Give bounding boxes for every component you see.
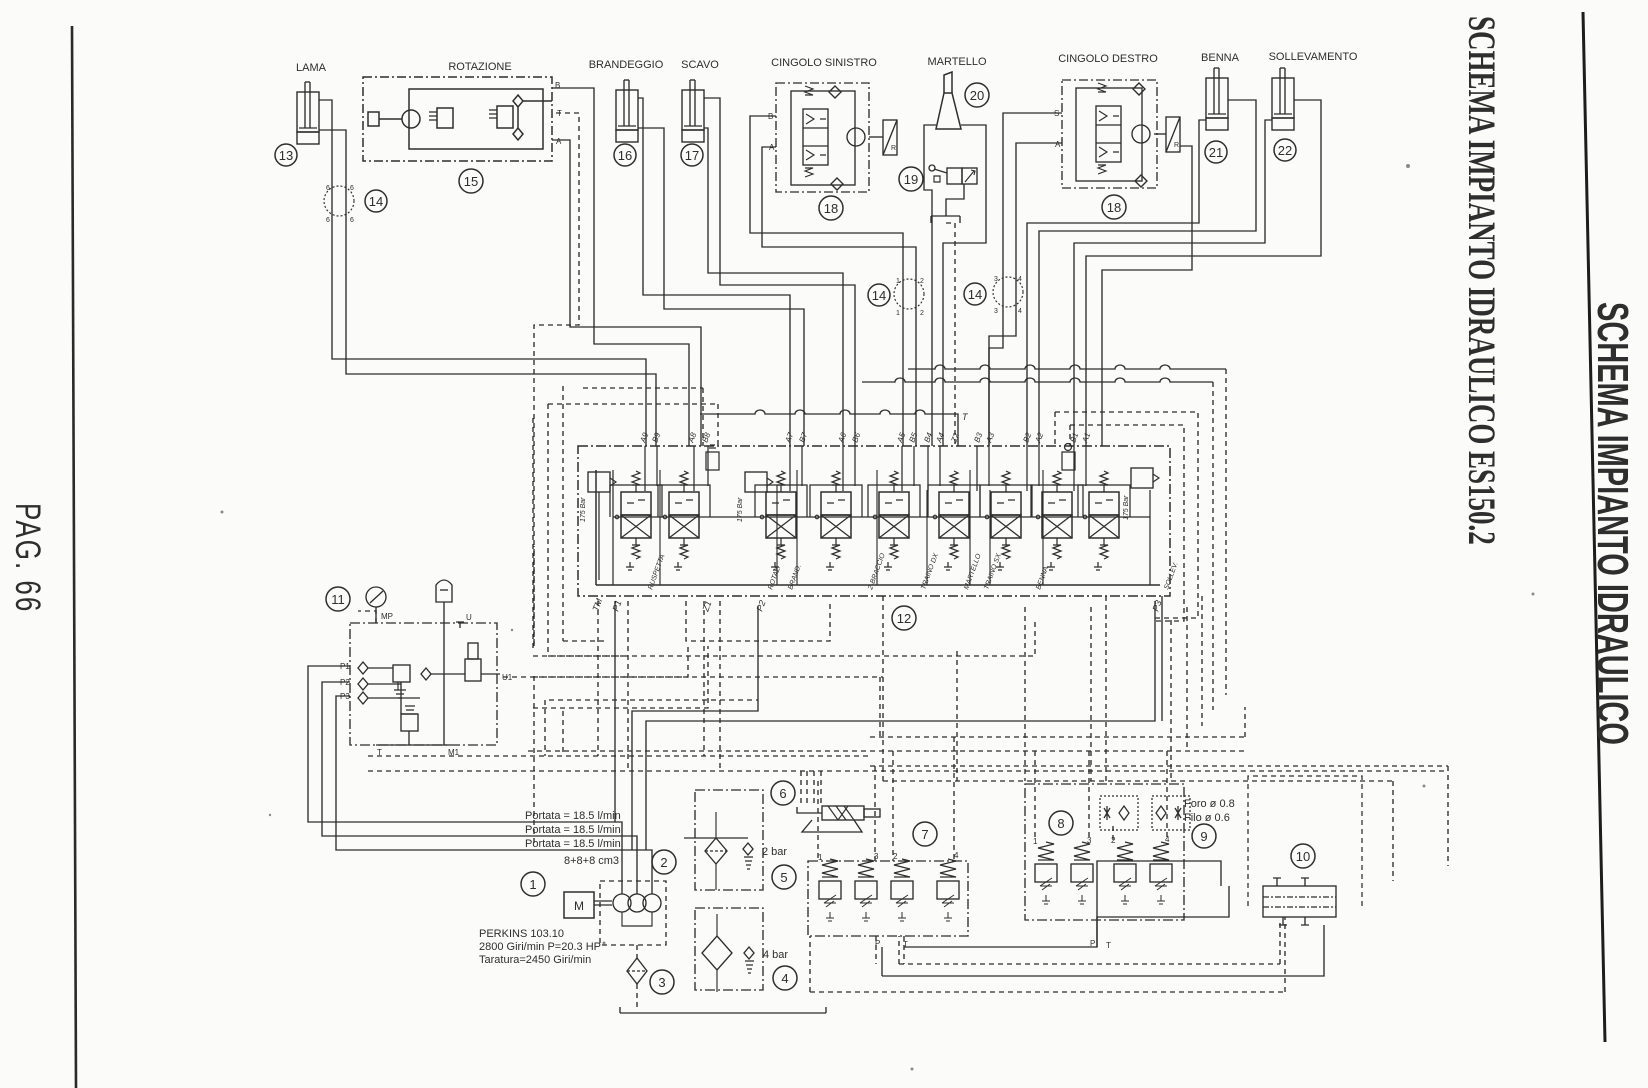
svg-text:7: 7 bbox=[921, 827, 928, 842]
svg-text:2: 2 bbox=[920, 310, 924, 317]
svg-text:20: 20 bbox=[970, 88, 984, 103]
dashed Z1-Z2 pilot loop bbox=[686, 601, 830, 641]
wire sollevamento pair bbox=[1074, 120, 1272, 446]
rotation unit box 15 bbox=[363, 77, 552, 161]
svg-text:9: 9 bbox=[1200, 829, 1207, 844]
wire cingolo destro pair bbox=[989, 113, 1062, 446]
svg-text:BRAND.: BRAND. bbox=[787, 563, 803, 590]
wire brandeggio pair bbox=[638, 98, 790, 446]
svg-text:PAG. 66: PAG. 66 bbox=[8, 503, 48, 613]
svg-text:Portata = 18.5 l/min: Portata = 18.5 l/min bbox=[525, 810, 621, 822]
travel unit left box 18 CINGOLO SINISTRO bbox=[776, 83, 897, 192]
spool SOLLEV bbox=[1078, 471, 1130, 570]
dashed pilot network bbox=[358, 369, 1448, 1010]
hammer control valve 19 bbox=[929, 165, 977, 223]
svg-text:2800 Giri/min P=20.3 HP: 2800 Giri/min P=20.3 HP bbox=[479, 941, 601, 953]
svg-text:15: 15 bbox=[464, 174, 478, 189]
unloader top component right bbox=[1062, 444, 1075, 471]
bottom port labels of block 12 bbox=[590, 597, 1163, 614]
svg-text:P1: P1 bbox=[610, 599, 623, 613]
svg-text:2 bar: 2 bar bbox=[762, 846, 787, 858]
svg-text:Taratura=2450 Giri/min: Taratura=2450 Giri/min bbox=[479, 954, 591, 966]
svg-text:M: M bbox=[574, 899, 584, 913]
svg-text:A3: A3 bbox=[984, 431, 996, 445]
svg-text:Z1: Z1 bbox=[700, 599, 713, 613]
cylinder 13 LAMA bbox=[297, 82, 319, 144]
wire brake R destro bbox=[1102, 146, 1192, 446]
svg-text:22: 22 bbox=[1278, 143, 1292, 158]
pilot valve 7.2 bbox=[891, 859, 913, 921]
svg-text:14: 14 bbox=[369, 194, 383, 209]
svg-text:MARTELLO: MARTELLO bbox=[927, 56, 987, 68]
pilot valve block 7 bbox=[808, 861, 968, 936]
svg-text:SCAVO: SCAVO bbox=[681, 59, 719, 71]
engine 1 bbox=[564, 892, 594, 918]
svg-text:3: 3 bbox=[994, 276, 998, 283]
dashed MP line bbox=[358, 611, 376, 623]
svg-text:Foro ø 0.8: Foro ø 0.8 bbox=[1184, 798, 1235, 810]
svg-text:2: 2 bbox=[893, 852, 898, 861]
wire return bottom bbox=[882, 925, 1324, 976]
spool 2-BRACCIO bbox=[810, 471, 862, 570]
spool MARTELLO bbox=[928, 471, 980, 570]
svg-text:Filo ø 0.6: Filo ø 0.6 bbox=[1184, 812, 1230, 824]
svg-text:A: A bbox=[556, 137, 562, 146]
pilot valve 7.4 bbox=[937, 859, 959, 921]
svg-text:A8: A8 bbox=[686, 431, 698, 445]
dashed U1 line to right bbox=[503, 677, 883, 737]
wire P1 P2 P3 supply drops bbox=[614, 601, 616, 822]
svg-text:PERKINS 103.10: PERKINS 103.10 bbox=[479, 928, 564, 940]
dashed rows below block bbox=[870, 736, 1245, 738]
svg-text:175 Bar: 175 Bar bbox=[737, 497, 744, 522]
spool BRAND bbox=[755, 471, 807, 570]
pilot valve 8.4 bbox=[1150, 842, 1172, 904]
svg-text:175 Bar: 175 Bar bbox=[1123, 495, 1130, 520]
wire block7 to rotary bbox=[904, 861, 1221, 947]
pilot valve block 8 bbox=[1025, 784, 1184, 920]
cylinder 16 BRANDEGGIO bbox=[616, 80, 638, 142]
dashed nested rects right of block bbox=[1055, 412, 1198, 618]
svg-text:1: 1 bbox=[896, 278, 900, 285]
wire Z1 dashed bbox=[533, 546, 535, 846]
wire rotation A bbox=[552, 140, 701, 446]
solid bottom distribution bbox=[308, 596, 1324, 1013]
svg-text:4: 4 bbox=[1018, 308, 1022, 315]
scan specks bbox=[221, 164, 1535, 1071]
svg-text:14: 14 bbox=[872, 288, 886, 303]
svg-text:13: 13 bbox=[279, 148, 293, 163]
svg-text:B5: B5 bbox=[907, 431, 919, 444]
filter block 4 (4 bar) bbox=[685, 908, 763, 992]
svg-text:SCHEMA IMPIANTO IDRAULICO: SCHEMA IMPIANTO IDRAULICO bbox=[1589, 302, 1637, 745]
svg-text:14: 14 bbox=[968, 287, 982, 302]
suction filter 3 bbox=[627, 958, 647, 984]
spool TRAINO SX bbox=[980, 471, 1032, 570]
hammer 20 MARTELLO bbox=[936, 72, 961, 129]
left scan border line bbox=[72, 26, 76, 1088]
svg-text:B6: B6 bbox=[850, 431, 862, 444]
right scan border line bbox=[1583, 12, 1605, 1042]
svg-text:Portata = 18.5 l/min: Portata = 18.5 l/min bbox=[525, 824, 621, 836]
spool RUSPETTA bbox=[610, 471, 662, 570]
svg-text:B3: B3 bbox=[972, 431, 984, 444]
coupling 14 top-left bbox=[324, 186, 354, 216]
svg-text:ROTAZIONE: ROTAZIONE bbox=[448, 61, 511, 73]
svg-text:R: R bbox=[1174, 142, 1179, 149]
wire portata lines from block 11 bbox=[308, 666, 622, 894]
dashed bottom rows bbox=[899, 936, 1280, 964]
pilot valve 8.2 bbox=[1114, 842, 1136, 904]
svg-text:BENNA: BENNA bbox=[1035, 565, 1050, 590]
wire rotation B bbox=[552, 88, 689, 446]
svg-text:175 Bar: 175 Bar bbox=[580, 497, 587, 522]
pilot block 11 bbox=[350, 580, 500, 745]
svg-text:18: 18 bbox=[824, 201, 838, 216]
svg-text:11: 11 bbox=[331, 592, 345, 607]
pilot valve 7.3 bbox=[855, 859, 877, 921]
relief valve left 175 Bar bbox=[588, 472, 616, 580]
svg-text:A5: A5 bbox=[895, 431, 907, 445]
dashed pump drain bbox=[636, 945, 638, 1010]
svg-text:ROTAZ.: ROTAZ. bbox=[767, 565, 782, 591]
wire scavo pair bbox=[704, 128, 843, 446]
wire cingolo sin pair bbox=[750, 116, 903, 446]
pilot valve 7.1 bbox=[819, 859, 841, 921]
svg-text:BRANDEGGIO: BRANDEGGIO bbox=[589, 59, 664, 71]
svg-text:4 bar: 4 bar bbox=[763, 949, 788, 961]
orifice pair 9 bbox=[1100, 796, 1190, 830]
unloader top component left bbox=[706, 445, 719, 470]
spool BENNA bbox=[1031, 471, 1083, 570]
svg-text:3: 3 bbox=[994, 308, 998, 315]
svg-text:5: 5 bbox=[780, 870, 787, 885]
dashed feeds into block 8 bbox=[1035, 751, 1167, 840]
svg-text:8+8+8 cm3: 8+8+8 cm3 bbox=[564, 855, 619, 867]
dashed enclosure around rotary joint 10 bbox=[1248, 776, 1362, 906]
pilot valve 8.1 bbox=[1035, 842, 1057, 904]
svg-text:6: 6 bbox=[779, 786, 786, 801]
svg-text:1: 1 bbox=[529, 877, 536, 892]
svg-text:18: 18 bbox=[1107, 200, 1121, 215]
svg-text:Portata = 18.5 l/min: Portata = 18.5 l/min bbox=[525, 838, 621, 850]
svg-text:10: 10 bbox=[1296, 849, 1310, 864]
svg-text:6: 6 bbox=[350, 185, 354, 192]
svg-text:4: 4 bbox=[781, 971, 788, 986]
main control valve block 12 bbox=[578, 446, 1170, 596]
svg-text:BENNA: BENNA bbox=[1201, 52, 1240, 64]
svg-text:SCHEMA IMPIANTO IDRAULICO ES: SCHEMA IMPIANTO IDRAULICO ES150.2 bbox=[1460, 16, 1503, 545]
svg-text:P2: P2 bbox=[754, 599, 767, 613]
svg-text:4: 4 bbox=[954, 851, 959, 860]
svg-text:A: A bbox=[1055, 140, 1061, 149]
svg-text:3: 3 bbox=[658, 975, 665, 990]
dashed feeds into block 7 bbox=[818, 737, 954, 861]
dashed verticals below block bbox=[597, 601, 599, 756]
pump 2 bbox=[600, 881, 666, 945]
relief valve mid 175 Bar bbox=[745, 472, 773, 492]
svg-text:T: T bbox=[962, 412, 969, 422]
dashed feeds to block 7 bbox=[876, 936, 904, 964]
spool ROTAZ bbox=[658, 471, 710, 570]
svg-text:19: 19 bbox=[904, 172, 918, 187]
cylinder 21 BENNA bbox=[1206, 68, 1228, 130]
svg-text:A4: A4 bbox=[934, 431, 946, 445]
svg-text:1: 1 bbox=[818, 853, 823, 862]
svg-text:1: 1 bbox=[1033, 837, 1038, 846]
wavy crossing bundle rows bbox=[908, 365, 1226, 369]
svg-text:CINGOLO DESTRO: CINGOLO DESTRO bbox=[1058, 53, 1158, 65]
travel unit right box 18 CINGOLO DESTRO bbox=[1062, 80, 1180, 188]
cylinder 17 SCAVO bbox=[682, 80, 704, 142]
svg-text:U: U bbox=[466, 613, 472, 622]
svg-text:16: 16 bbox=[618, 148, 632, 163]
wire martello lines bbox=[924, 125, 936, 446]
svg-text:A9: A9 bbox=[638, 431, 650, 445]
svg-text:A6: A6 bbox=[836, 431, 848, 445]
svg-text:1: 1 bbox=[896, 310, 900, 317]
shaft bbox=[594, 900, 612, 902]
svg-text:6: 6 bbox=[326, 185, 330, 192]
wire rotation T dashed bbox=[534, 113, 579, 646]
svg-text:CINGOLO SINISTRO: CINGOLO SINISTRO bbox=[771, 57, 877, 69]
svg-text:T: T bbox=[1106, 941, 1111, 950]
svg-text:17: 17 bbox=[685, 148, 699, 163]
svg-text:8: 8 bbox=[1057, 816, 1064, 831]
svg-text:SOLLEV.: SOLLEV. bbox=[1163, 561, 1179, 590]
svg-text:3: 3 bbox=[1087, 836, 1092, 845]
wire benna pair bbox=[1027, 120, 1206, 446]
dashed joystick 6 feeds bbox=[801, 771, 821, 806]
coupling 14 mid-right bbox=[993, 277, 1023, 307]
port labels above block 12 bbox=[638, 431, 1092, 445]
rotary joint 10 bbox=[1263, 878, 1336, 925]
filter block 5 (2 bar) bbox=[684, 790, 763, 890]
wire tank line bbox=[620, 1007, 826, 1013]
svg-text:2: 2 bbox=[920, 278, 924, 285]
dashed rows left of block bbox=[562, 386, 564, 641]
pilot valve 8.3 bbox=[1071, 842, 1093, 904]
wire LAMA pair bbox=[319, 100, 646, 446]
joystick 6 bbox=[797, 806, 880, 832]
svg-text:R: R bbox=[891, 145, 896, 152]
svg-text:SOLLEVAMENTO: SOLLEVAMENTO bbox=[1269, 51, 1358, 63]
svg-text:6: 6 bbox=[326, 217, 330, 224]
svg-text:MP: MP bbox=[381, 612, 393, 621]
svg-text:2: 2 bbox=[660, 855, 667, 870]
spool TRAINO DX bbox=[868, 471, 920, 570]
svg-text:12: 12 bbox=[897, 611, 911, 626]
svg-text:4: 4 bbox=[1018, 276, 1022, 283]
dashed nested connectors left of block bottom bbox=[533, 641, 708, 708]
svg-text:6: 6 bbox=[350, 217, 354, 224]
cylinder 22 SOLLEVAMENTO bbox=[1272, 68, 1294, 130]
port drop lines into block 12 bbox=[645, 446, 1086, 491]
svg-text:21: 21 bbox=[1209, 145, 1223, 160]
svg-text:LAMA: LAMA bbox=[296, 62, 327, 74]
svg-text:B8: B8 bbox=[700, 431, 712, 444]
svg-text:A7: A7 bbox=[783, 431, 795, 445]
coupling 14 mid-left bbox=[894, 279, 924, 309]
relief valve right 175 Bar bbox=[1131, 468, 1159, 488]
dashed right descend from rows bbox=[1244, 707, 1246, 737]
